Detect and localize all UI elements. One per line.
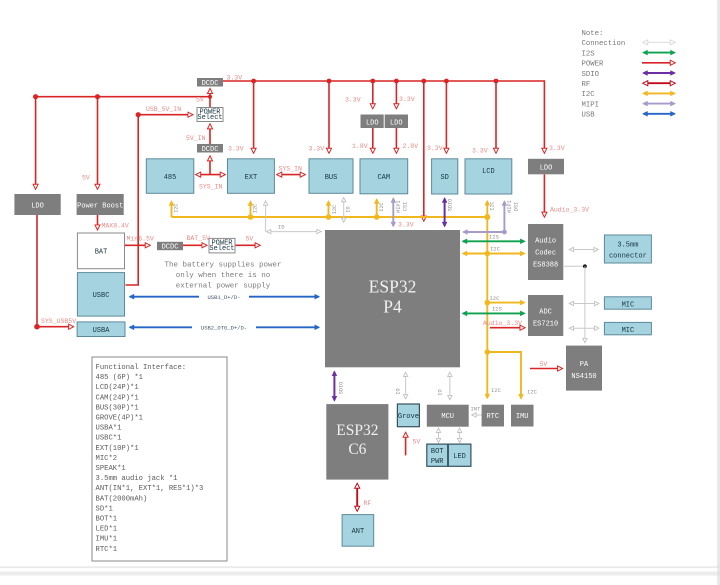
svg-text:Grove: Grove: [398, 413, 419, 421]
svg-text:IO: IO: [396, 388, 402, 394]
legend I2S arrow: [644, 52, 675, 54]
audio codec ES8388: [528, 224, 563, 280]
svg-text:5V: 5V: [540, 361, 548, 368]
button BOT PWR: [427, 444, 448, 466]
svg-text:Select: Select: [209, 245, 234, 253]
regulator LDO left: [14, 194, 60, 215]
wire I2C ADC: [487, 302, 524, 304]
svg-text:Connection: Connection: [582, 40, 626, 48]
svg-text:RF: RF: [364, 500, 372, 507]
wire MIPI_DSI LCD-P4: [464, 202, 505, 233]
photo edge shadow right: [717, 0, 720, 585]
svg-text:I2C: I2C: [490, 201, 496, 210]
svg-text:USBC*1: USBC*1: [96, 435, 122, 443]
svg-text:USBA*1: USBA*1: [96, 425, 122, 433]
svg-text:CAM(24P)*1: CAM(24P)*1: [96, 394, 139, 402]
svg-text:SDIO: SDIO: [448, 199, 454, 211]
wire 5V to Grove: [405, 433, 407, 455]
svg-text:IMU*1: IMU*1: [96, 536, 118, 544]
svg-text:USB2_OTG_D+/D-: USB2_OTG_D+/D-: [201, 325, 247, 332]
svg-text:3.5mm: 3.5mm: [617, 241, 638, 249]
SoC ESP32 P4: [325, 230, 460, 367]
svg-text:ADC: ADC: [539, 309, 552, 317]
svg-text:DSI: DSI: [514, 202, 520, 211]
connector 485: [146, 159, 194, 194]
node junction 3.3V SD: [444, 79, 449, 84]
wire IO P4 to MCU: [449, 373, 451, 399]
svg-text:BAT_5V: BAT_5V: [187, 235, 211, 242]
svg-text:LDO: LDO: [366, 120, 379, 128]
svg-text:I2C: I2C: [174, 203, 180, 212]
svg-text:I2C: I2C: [253, 204, 259, 213]
node junction I2C EXT: [248, 214, 254, 220]
svg-text:I2C: I2C: [490, 295, 501, 302]
wire SYS_IN 485-EXT: [196, 174, 224, 176]
wire ES8388 to 3.5mm connector: [570, 249, 598, 251]
connector 3.5mm: [604, 235, 651, 263]
wire 3.3V to LDO1: [372, 81, 374, 108]
wire 3.3V to BUS: [328, 81, 330, 153]
wire USB1_D+/D-: [130, 296, 319, 298]
legend MIPI arrow: [644, 103, 675, 105]
wire I2C up to EXT: [250, 202, 252, 218]
svg-text:I2S: I2S: [489, 234, 500, 241]
svg-text:CAM: CAM: [377, 174, 390, 182]
connector CAM: [360, 159, 408, 194]
wire ES8388 speaker tap: [564, 265, 585, 267]
microphone MIC2: [604, 322, 651, 335]
connector Grove: [397, 404, 419, 427]
wire SYS_IN EXT-BUS: [278, 174, 305, 176]
node junction USB_5V_IN: [136, 112, 141, 117]
node junction 3.3V LCD: [494, 79, 499, 84]
regulator DCDC2: [197, 144, 223, 154]
svg-text:IO: IO: [278, 223, 285, 230]
wire LDO to SYS_USB5V USBA: [37, 215, 73, 327]
svg-text:RTC*1: RTC*1: [96, 546, 118, 554]
wire Audio_3.3V to ADC: [490, 327, 524, 329]
LED: [448, 444, 471, 466]
svg-text:ES8388: ES8388: [533, 262, 558, 270]
svg-text:BAT(2000mAh): BAT(2000mAh): [96, 495, 148, 503]
svg-text:external power supply: external power supply: [176, 283, 271, 291]
node junction I2C BUS: [326, 214, 332, 220]
wire I2C up to 485: [171, 202, 173, 218]
svg-text:1.8V: 1.8V: [352, 143, 368, 150]
svg-text:SD: SD: [440, 174, 448, 182]
svg-text:3.3V: 3.3V: [398, 222, 414, 229]
wire USB2_OTG_D+/D-: [130, 326, 319, 328]
IMU: [511, 405, 534, 427]
svg-text:Audio: Audio: [535, 238, 556, 246]
svg-text:P4: P4: [383, 297, 402, 317]
wire I2S ES8388: [463, 240, 524, 242]
connector LCD: [465, 159, 512, 194]
svg-text:ESP32: ESP32: [369, 277, 417, 297]
wire USB_5V_IN: [138, 114, 192, 116]
svg-text:3.3V: 3.3V: [427, 145, 443, 152]
svg-text:Codec: Codec: [535, 250, 556, 258]
label USB1_D+/D-: [199, 293, 249, 300]
svg-text:LCD: LCD: [482, 168, 495, 176]
label USB2_OTG_D+/D-: [192, 324, 256, 331]
legend RF arrow: [644, 82, 675, 84]
wire ADC to MIC2: [570, 327, 598, 329]
svg-text:5V_IN: 5V_IN: [186, 135, 206, 142]
svg-text:I2S: I2S: [582, 50, 596, 58]
svg-text:SYS_IN: SYS_IN: [279, 165, 303, 172]
svg-text:5V: 5V: [82, 175, 90, 182]
wire PowerSelect2 5V out: [235, 244, 259, 246]
wire 3.3V to LCD: [495, 81, 497, 153]
ADC ES7210: [528, 295, 563, 336]
svg-text:DCDC: DCDC: [202, 80, 219, 88]
legend connection arrow: [644, 41, 675, 43]
svg-text:Audio_3.3V: Audio_3.3V: [550, 207, 589, 214]
svg-text:BOT*1: BOT*1: [96, 516, 118, 524]
svg-text:BUS(30P)*1: BUS(30P)*1: [96, 404, 139, 412]
power select U-PS1: [197, 108, 223, 123]
svg-text:SYS_IN: SYS_IN: [199, 183, 223, 190]
svg-text:Select: Select: [197, 114, 222, 122]
svg-text:connector: connector: [609, 252, 647, 260]
svg-text:2.8V: 2.8V: [403, 143, 419, 150]
node junction 5V riser: [208, 95, 212, 99]
svg-text:DCDC: DCDC: [162, 244, 179, 252]
node junction I2C CAM: [374, 214, 380, 220]
svg-text:MIPI: MIPI: [582, 101, 600, 109]
svg-text:MIC: MIC: [622, 327, 635, 335]
wire 3.3V to ESP32P4: [423, 81, 425, 220]
svg-text:IO: IO: [438, 389, 444, 395]
svg-text:Note:: Note:: [582, 30, 604, 38]
svg-text:The battery supplies power: The battery supplies power: [164, 262, 281, 270]
svg-text:5V: 5V: [246, 236, 254, 243]
svg-text:Power Boost: Power Boost: [77, 203, 123, 211]
svg-text:IMU: IMU: [516, 413, 529, 421]
svg-text:PWR: PWR: [431, 458, 444, 466]
svg-text:I2C: I2C: [491, 387, 502, 394]
wire LDO right to Audio Codec: [543, 174, 545, 216]
svg-text:5V: 5V: [196, 97, 204, 104]
wire DCDC2 to PowerSelect1: [209, 125, 211, 144]
RTC: [482, 405, 504, 427]
svg-text:3.3V: 3.3V: [227, 75, 243, 82]
svg-text:ANT(IN*1, EXT*1, RES*1)*3: ANT(IN*1, EXT*1, RES*1)*3: [96, 485, 204, 493]
svg-text:485 (6P) *1: 485 (6P) *1: [96, 374, 143, 382]
battery BAT: [77, 233, 124, 269]
svg-text:5V: 5V: [413, 439, 421, 446]
svg-text:INT: INT: [471, 406, 482, 413]
svg-text:3.3V: 3.3V: [472, 148, 488, 155]
wire LDO2 to CAM 2.8V: [395, 128, 397, 153]
svg-text:BAT: BAT: [95, 249, 108, 257]
legend SDIO arrow: [644, 72, 675, 74]
svg-text:LDO: LDO: [31, 203, 44, 211]
svg-text:SD*1: SD*1: [96, 505, 113, 513]
wire I2C ES8388: [463, 253, 524, 255]
wire I2C up to LCD: [486, 201, 488, 217]
wire RF C6-ANT: [356, 484, 358, 511]
node junction 5V LDO: [33, 94, 38, 99]
regulator LDO-LDO pair: [361, 115, 409, 129]
wire SDIO P4-C6: [333, 372, 335, 401]
node junction I2C IMU branch: [485, 349, 491, 355]
svg-text:MIC*2: MIC*2: [96, 455, 118, 463]
photo edge shadow bottom: [0, 567, 720, 568]
svg-text:ANT: ANT: [352, 528, 365, 536]
svg-text:SDIO: SDIO: [582, 71, 600, 79]
connector SD: [432, 159, 458, 194]
functional interface list: [92, 357, 227, 561]
svg-text:I2C: I2C: [490, 246, 501, 253]
wire I2S ADC: [463, 312, 524, 314]
svg-text:USB1_D+/D-: USB1_D+/D-: [207, 294, 240, 301]
wire LDO1 to CAM 1.8V: [372, 128, 374, 153]
SoC ESP32 C6: [326, 404, 388, 480]
node junction I2C LCD: [484, 214, 490, 220]
wire I2C to IMU: [487, 352, 521, 398]
wire DCDC3 to PowerSelect2: [183, 244, 206, 246]
svg-text:3.3V: 3.3V: [399, 96, 415, 103]
wire SYS_IN to DCDC2: [209, 157, 211, 175]
wire I2C up to BUS: [328, 202, 330, 218]
svg-text:POWER: POWER: [582, 61, 605, 69]
svg-text:LCD(24P)*1: LCD(24P)*1: [96, 384, 139, 392]
svg-text:485: 485: [164, 174, 177, 182]
legend note: [582, 30, 626, 120]
wire MCU to BOT PWR: [438, 429, 440, 442]
svg-text:Functional Interface:: Functional Interface:: [96, 364, 187, 372]
regulator DCDC1: [197, 78, 223, 88]
wire 3.3V to LDO2: [395, 81, 397, 108]
svg-text:PA: PA: [580, 361, 589, 369]
svg-text:MIPI: MIPI: [507, 200, 513, 212]
amplifier PA NS4150: [566, 346, 602, 391]
power select U-PS2: [209, 238, 235, 253]
svg-text:I2C: I2C: [582, 91, 596, 99]
svg-text:EXT(10P)*1: EXT(10P)*1: [96, 445, 139, 453]
svg-text:DCDC: DCDC: [202, 146, 219, 154]
regulator DCDC3: [157, 242, 183, 252]
svg-text:I2C: I2C: [332, 205, 338, 214]
svg-text:I2C: I2C: [527, 389, 538, 396]
svg-text:USBA: USBA: [93, 327, 111, 335]
svg-text:Min6.5V: Min6.5V: [127, 236, 154, 243]
svg-text:EXT: EXT: [245, 174, 258, 182]
svg-text:GROVE(4P)*1: GROVE(4P)*1: [96, 415, 143, 423]
wire MIPI_CSI CAM-P4: [392, 199, 394, 227]
svg-text:LED*1: LED*1: [96, 526, 118, 534]
wire MCU to LED: [459, 429, 461, 442]
microphone MIC1: [604, 297, 651, 310]
wire Power Boost to BAT: [97, 215, 99, 229]
wire I2C bus horizontal: [172, 216, 488, 218]
wire USBC riser: [126, 115, 139, 285]
svg-text:LED: LED: [453, 453, 466, 461]
wire 5V to PA: [530, 368, 562, 370]
wire 5V to Power Boost: [97, 97, 99, 189]
wire BAT to DCDC3: [125, 244, 150, 246]
svg-text:USB_5V_IN: USB_5V_IN: [146, 106, 181, 113]
connector EXT: [228, 159, 275, 194]
connector BUS: [309, 159, 353, 194]
svg-text:3.3V: 3.3V: [549, 145, 565, 152]
svg-text:RF: RF: [582, 81, 591, 89]
wire I2C up to CAM: [376, 200, 378, 218]
svg-text:RTC: RTC: [486, 413, 499, 421]
connector USBC: [77, 273, 124, 317]
svg-text:SDIO: SDIO: [339, 382, 345, 394]
antenna ANT: [342, 515, 374, 547]
svg-text:MAX8.4V: MAX8.4V: [102, 223, 129, 230]
node junction SYS_USB5V: [34, 324, 40, 330]
wire IO BUS to P4: [343, 198, 345, 221]
node junction 3.3V LDO1: [370, 79, 375, 84]
svg-text:Audio_3.3V: Audio_3.3V: [483, 320, 522, 327]
svg-text:CSI: CSI: [403, 202, 409, 211]
svg-text:LDO: LDO: [390, 120, 403, 128]
node junction speaker tap: [583, 264, 587, 268]
wire SDIO SD-P4: [444, 199, 446, 227]
regulator LDO right: [528, 159, 564, 175]
svg-text:3.3V: 3.3V: [309, 146, 325, 153]
svg-text:SPEAK*1: SPEAK*1: [96, 465, 126, 473]
wire ADC to MIC1: [570, 303, 598, 305]
node junction 3.3V P4: [421, 79, 426, 84]
wire 5V bus: [36, 96, 210, 98]
svg-text:USB: USB: [582, 112, 596, 120]
svg-text:ESP32: ESP32: [336, 422, 378, 439]
MCU: [427, 405, 469, 427]
wire tap to PA: [584, 266, 586, 342]
wire PowerSelect1 to DCDC1: [209, 89, 211, 107]
svg-text:MIPI: MIPI: [396, 200, 402, 212]
svg-text:ES7210: ES7210: [533, 321, 558, 329]
node junction I2C ADC: [485, 300, 491, 306]
svg-text:I2C: I2C: [379, 202, 385, 211]
wire 3.3V bus: [223, 81, 544, 153]
wire IO EXT to P4 vertical: [265, 202, 267, 232]
svg-text:IO: IO: [346, 206, 352, 212]
node junction 3.3V EXT: [251, 79, 256, 84]
node junction MIPI_DSI elbow: [502, 230, 507, 235]
wire INT RTC to MCU: [473, 414, 482, 416]
svg-text:LDO: LDO: [540, 164, 553, 172]
legend POWER arrow: [642, 62, 675, 64]
wire 5V to LDO left: [35, 97, 37, 189]
svg-text:BUS: BUS: [325, 174, 338, 182]
svg-text:USBC: USBC: [93, 292, 110, 300]
svg-text:only when there is no: only when there is no: [176, 272, 271, 280]
svg-text:3.3V: 3.3V: [228, 146, 244, 153]
svg-text:NS4150: NS4150: [571, 373, 596, 381]
svg-text:SYS_USB5V: SYS_USB5V: [41, 318, 76, 325]
svg-text:MCU: MCU: [441, 413, 454, 421]
wire I2C vertical to RTC: [486, 217, 488, 398]
node junction I2C ES8388: [485, 251, 491, 257]
svg-text:C6: C6: [348, 441, 366, 458]
node junction 5V PowerBoost: [95, 94, 100, 99]
svg-text:BOT: BOT: [431, 448, 444, 456]
power boost: [77, 194, 124, 215]
svg-text:3.5mm audio jack *1: 3.5mm audio jack *1: [96, 475, 178, 483]
wire IO EXT to P4 horizontal: [267, 231, 320, 233]
legend USB arrow: [644, 113, 675, 115]
svg-text:3.3V: 3.3V: [345, 97, 361, 104]
wire IO P4 to Grove: [405, 373, 407, 399]
connector USBA: [77, 322, 125, 337]
svg-text:I2S: I2S: [492, 306, 503, 313]
wire 3.3V to SD: [445, 81, 447, 153]
wire 3.3V to EXT: [253, 81, 255, 153]
legend I2C arrow: [644, 92, 675, 94]
svg-text:MIC: MIC: [622, 301, 635, 309]
node junction 3.3V BUS: [327, 79, 332, 84]
node junction 3.3V LDO2: [394, 79, 399, 84]
